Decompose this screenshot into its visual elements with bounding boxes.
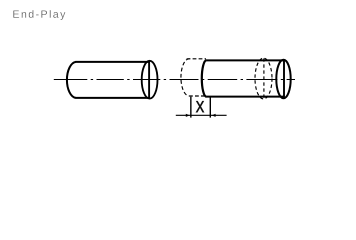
extension line left <box>190 97 192 118</box>
title End-Play <box>13 10 65 20</box>
phantom end face diameter line (dashed) <box>263 58 265 98</box>
label X <box>196 101 204 112</box>
sliding cylinder end ellipse <box>276 60 290 99</box>
phantom end ellipse (dashed) <box>255 58 272 99</box>
extension line right <box>209 97 211 118</box>
arrowhead left <box>186 114 190 117</box>
sliding cylinder end face diameter line <box>283 60 285 98</box>
dimension line <box>176 114 227 116</box>
left shaft end face diameter line <box>148 61 150 98</box>
left shaft top line <box>76 61 150 63</box>
sliding cylinder top line <box>206 59 284 61</box>
left shaft end ellipse <box>142 61 158 99</box>
arrowhead right <box>212 114 216 117</box>
phantom bottom line (dashed) <box>189 95 206 97</box>
center line <box>54 79 295 81</box>
sliding cylinder bottom line <box>206 96 284 98</box>
left shaft bottom line <box>76 97 150 99</box>
phantom top line (dashed) <box>187 58 206 60</box>
phantom cap arc (dashed) <box>181 59 190 96</box>
sliding cylinder cap arc <box>202 60 207 96</box>
left shaft cap arc <box>67 62 76 98</box>
